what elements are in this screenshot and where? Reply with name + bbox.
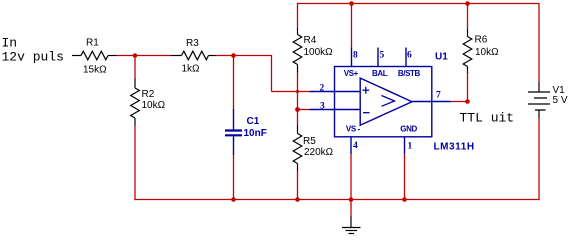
svg-text:R2: R2 [142,89,155,100]
svg-text:5 V: 5 V [553,95,568,106]
wire pin 1 down to ground rail [404,154,406,200]
wire node D to pin 3 [298,109,310,111]
wire pin 8 from top rail [351,3,353,48]
resistor R4 [293,28,302,73]
svg-text:R6: R6 [475,35,488,46]
svg-text:GND: GND [400,125,417,134]
junction C1 rail [231,197,236,202]
pin 6 stub [405,48,407,67]
svg-text:7: 7 [436,91,441,101]
pin 5 stub [377,48,379,67]
wire top rail [298,3,540,5]
junction R6 rail [465,1,470,6]
op-amp U1 [335,67,432,137]
wire R6 bottom to node E [467,73,469,102]
wire C1 bottom to ground rail [233,155,235,200]
svg-text:R1: R1 [86,38,99,49]
junction pin1 rail [402,197,407,202]
node In label [2,36,64,65]
wire pin 7 to node E [451,101,468,103]
pin 4 stub [350,137,352,154]
capacitor C1 [225,109,242,155]
junction node D (pin3/R5) [295,107,300,112]
svg-text:R5: R5 [303,136,316,147]
svg-text:1: 1 [408,142,413,152]
svg-text:15kΩ: 15kΩ [83,65,107,76]
pin 3 stub [310,109,335,111]
wire top rail down to R4 [297,3,299,28]
svg-text:100kΩ: 100kΩ [304,47,334,58]
pin 7 stub [432,101,451,103]
wire battery top from rail [538,3,540,82]
resistor R2 [131,78,140,126]
junction ground rail [349,197,354,202]
svg-text:R4: R4 [304,35,317,46]
junction node C (R4/pin2) [296,90,299,93]
svg-text:VS -: VS - [346,125,361,134]
svg-text:8: 8 [353,50,358,60]
svg-text:TTL uit: TTL uit [460,110,515,125]
resistor R5 [293,126,302,171]
svg-text:In: In [2,36,18,51]
svg-text:BAL: BAL [372,69,388,78]
svg-text:2: 2 [320,84,325,94]
svg-text:4: 4 [353,141,358,151]
wire R1 to R3 through node A [117,55,171,57]
svg-text:220kΩ: 220kΩ [304,147,334,158]
svg-text:R3: R3 [186,38,199,49]
resistor R1 [81,51,117,60]
ground [342,216,361,234]
junction R5 rail [295,197,300,202]
svg-text:3: 3 [320,102,325,112]
wire ground stem [350,200,352,217]
pin 8 stub [351,48,353,67]
wire ground rail [135,199,539,201]
svg-text:VS+: VS+ [344,69,359,78]
junction node A [133,53,138,58]
junction node E (output) [465,99,470,104]
wire pin 4 down to ground rail [350,154,352,200]
svg-text:10kΩ: 10kΩ [475,47,499,58]
pin 2 stub [310,91,335,93]
svg-text:5: 5 [380,50,385,60]
svg-text:U1: U1 [435,52,448,63]
resistor R3 [171,51,217,60]
wire R2 bottom to ground rail [134,126,136,201]
svg-text:LM311H: LM311H [434,142,475,153]
wire R3 to node B [216,55,272,57]
wire battery bottom to ground rail [538,118,540,200]
svg-text:12v puls: 12v puls [2,50,64,65]
svg-text:6: 6 [407,50,412,60]
wire top rail down to R6 [467,3,469,30]
resistor R6 [463,30,472,74]
wire node A down to R2 [134,56,136,79]
wire input stub to R1 [72,55,81,57]
svg-text:C1: C1 [247,116,260,127]
pin 1 stub [404,137,406,154]
svg-text:1kΩ: 1kΩ [182,64,201,75]
wire node B down to C1 [233,56,235,110]
wire R5 bottom to ground rail [297,171,299,200]
junction node B [231,53,236,58]
junction pin8 rail [349,1,354,6]
wire R4 bottom through node C to node D [297,73,299,126]
svg-text:B/STB: B/STB [398,69,421,78]
svg-text:10nF: 10nF [244,128,267,139]
wire node B to pin 2 [272,55,310,92]
svg-text:10kΩ: 10kΩ [142,100,166,111]
battery V1 [528,82,550,118]
